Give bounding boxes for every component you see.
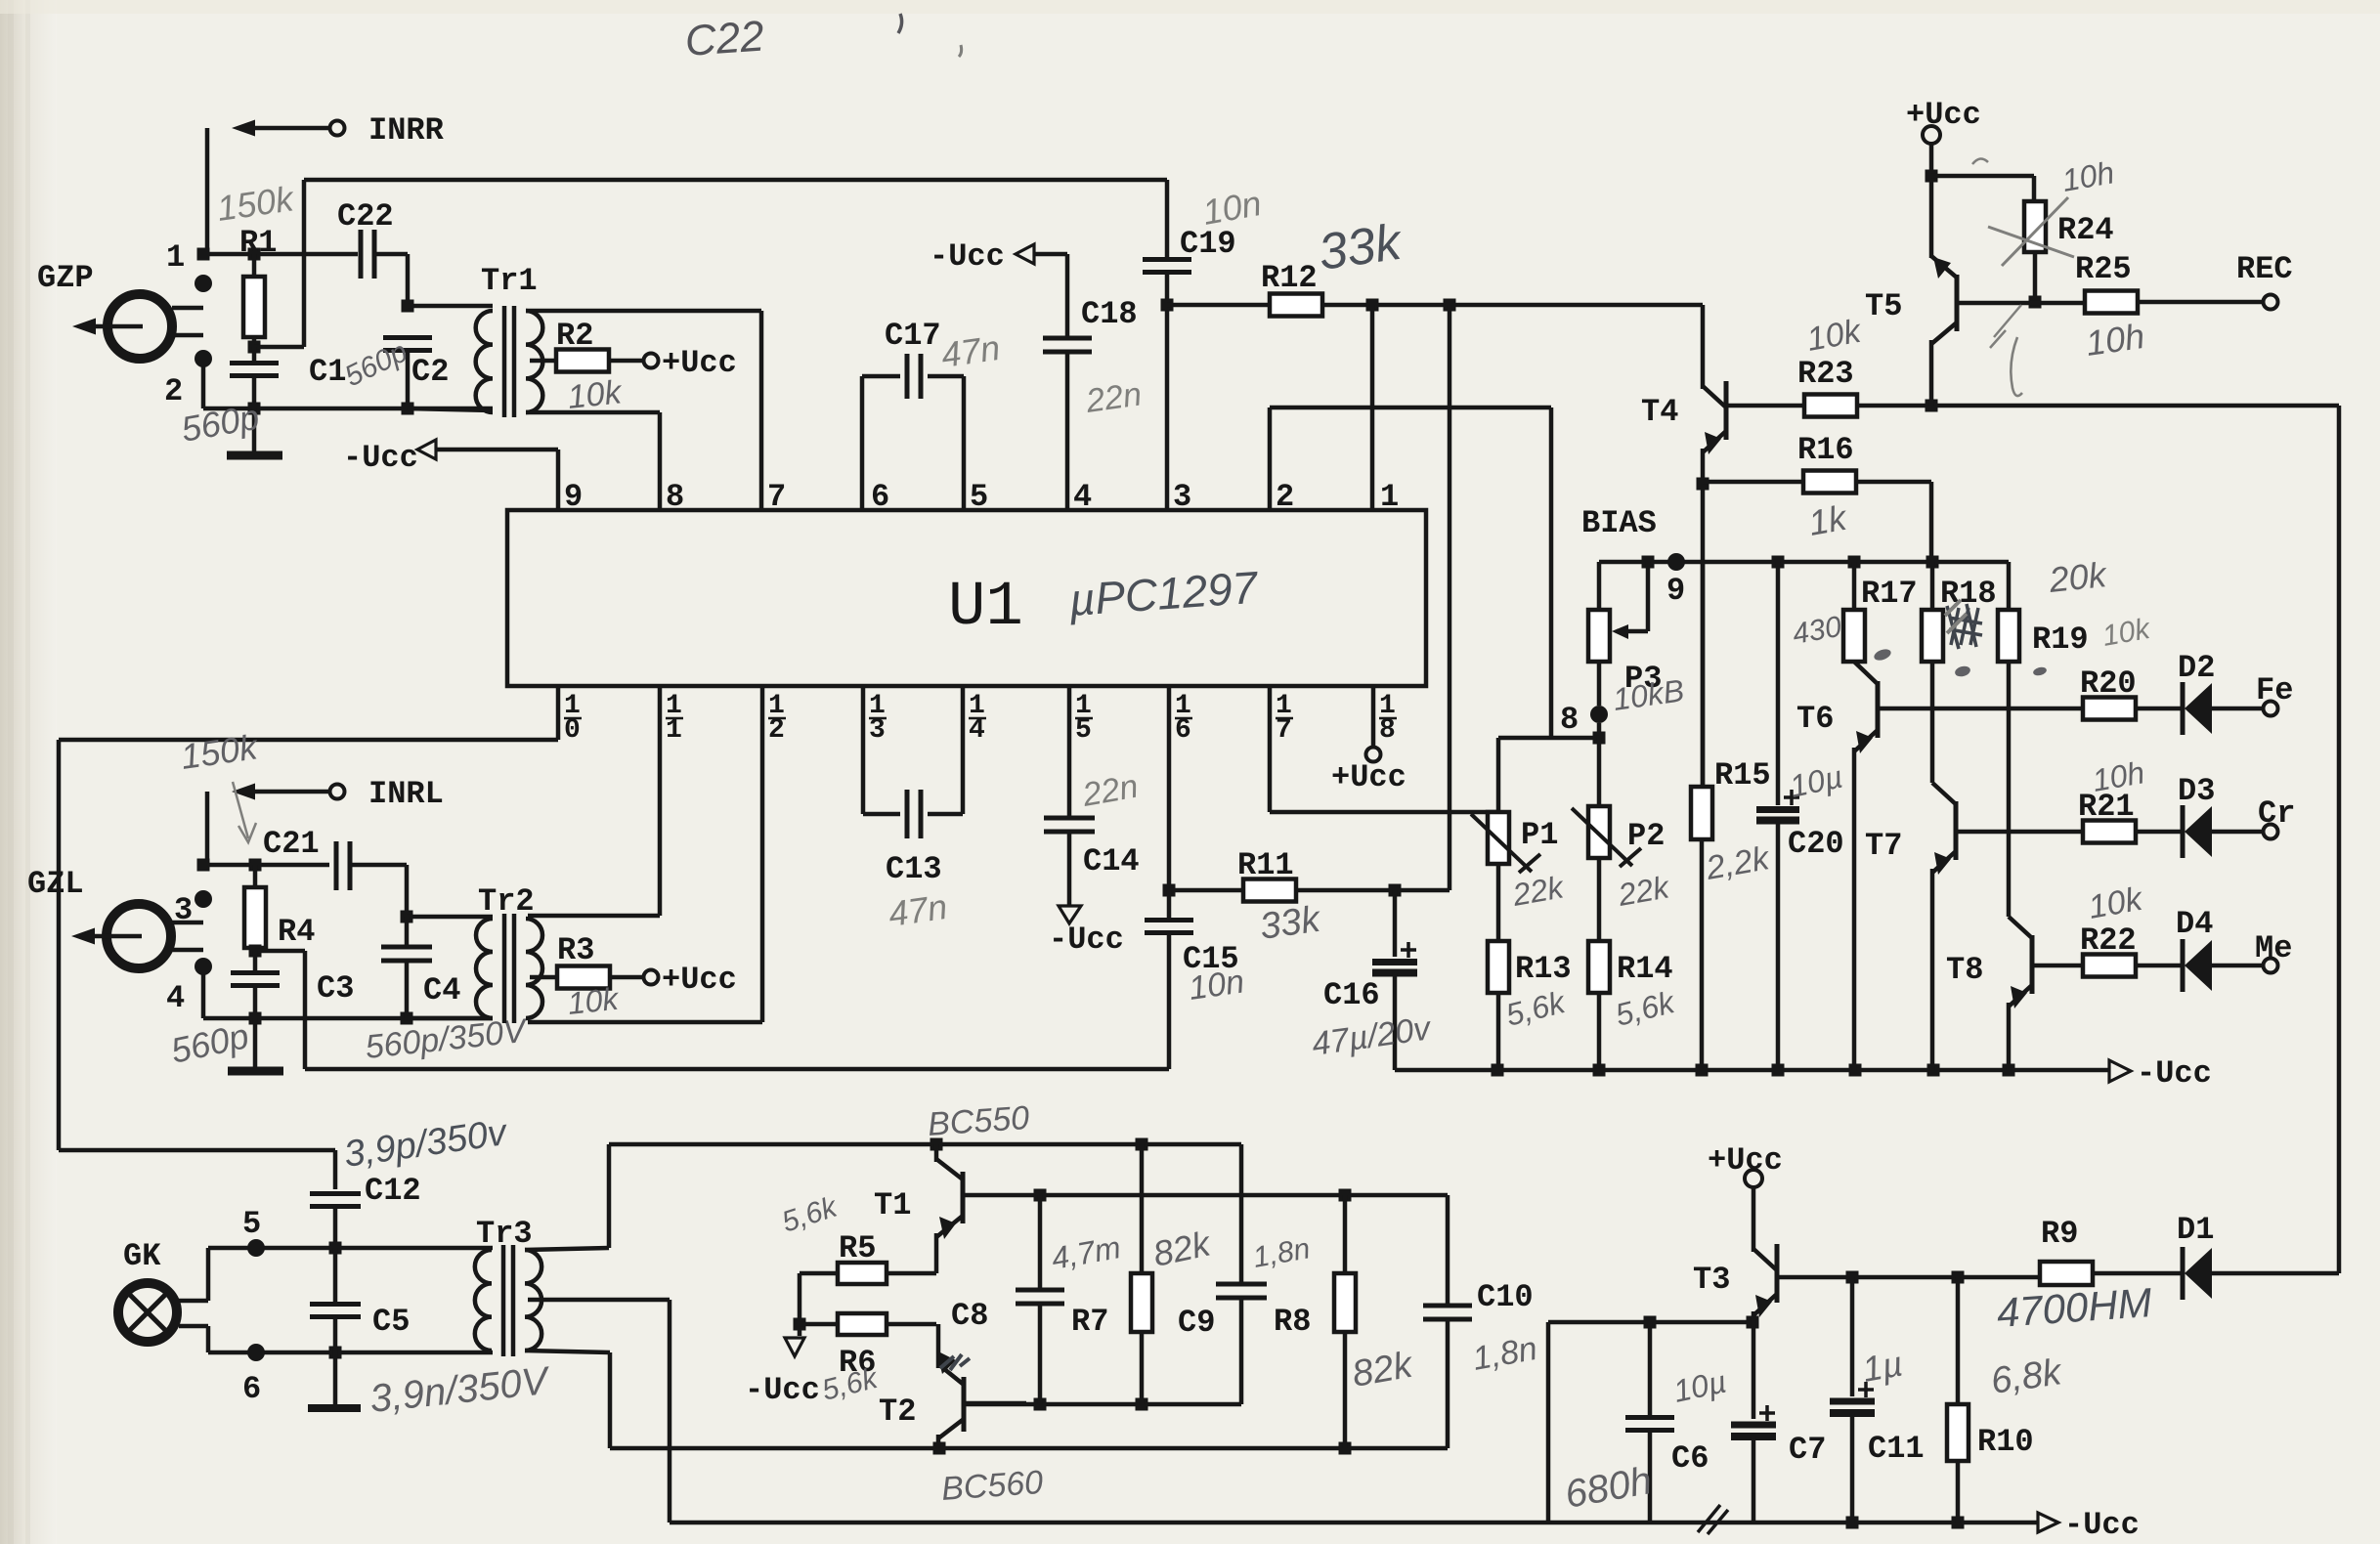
- svg-text:4: 4: [1073, 479, 1092, 515]
- svg-text:33k: 33k: [1316, 213, 1407, 281]
- svg-text:C14: C14: [1083, 843, 1140, 879]
- svg-text:10h: 10h: [2083, 316, 2146, 364]
- svg-text:T3: T3: [1693, 1262, 1730, 1298]
- svg-text:C11: C11: [1868, 1431, 1925, 1467]
- svg-text:R20: R20: [2080, 665, 2137, 702]
- svg-text:C9: C9: [1178, 1305, 1215, 1341]
- svg-text:D1: D1: [2177, 1212, 2214, 1248]
- svg-text:C18: C18: [1081, 296, 1138, 332]
- svg-text:T1: T1: [874, 1187, 911, 1223]
- svg-text:8: 8: [1379, 715, 1396, 746]
- svg-text:C13: C13: [886, 851, 942, 887]
- svg-text:7: 7: [767, 479, 786, 515]
- svg-text:C1: C1: [309, 354, 346, 390]
- svg-text:C21: C21: [263, 826, 320, 862]
- svg-text:BC550: BC550: [927, 1099, 1030, 1143]
- svg-text:BIAS: BIAS: [1581, 505, 1657, 541]
- svg-text:T8: T8: [1946, 952, 1983, 988]
- svg-text:R24: R24: [2057, 212, 2114, 248]
- svg-text:C4: C4: [423, 972, 460, 1008]
- svg-text:-Ucc: -Ucc: [930, 238, 1005, 275]
- svg-text:-Ucc: -Ucc: [2137, 1055, 2212, 1092]
- svg-text:R17: R17: [1861, 576, 1918, 612]
- svg-text:+Ucc: +Ucc: [1331, 759, 1406, 795]
- svg-text:C22: C22: [683, 12, 765, 65]
- svg-text:1: 1: [166, 239, 185, 276]
- svg-text:1: 1: [666, 715, 682, 746]
- svg-text:REC: REC: [2236, 251, 2293, 287]
- svg-text:6: 6: [1175, 715, 1191, 746]
- svg-text:+Ucc: +Ucc: [1708, 1142, 1783, 1179]
- svg-text:R10: R10: [1977, 1424, 2034, 1460]
- svg-text:T4: T4: [1641, 394, 1678, 430]
- svg-text:T5: T5: [1865, 288, 1902, 324]
- svg-text:C16: C16: [1323, 977, 1380, 1013]
- svg-text:C3: C3: [317, 970, 354, 1007]
- svg-text:47n: 47n: [886, 886, 949, 934]
- svg-text:4: 4: [166, 980, 185, 1016]
- svg-text:GK: GK: [123, 1238, 161, 1274]
- svg-text:P1: P1: [1521, 817, 1558, 853]
- svg-text:D2: D2: [2178, 650, 2215, 686]
- svg-text:R7: R7: [1071, 1304, 1108, 1340]
- svg-text:2: 2: [1276, 479, 1294, 515]
- svg-text:6: 6: [242, 1371, 261, 1407]
- svg-text:INRL: INRL: [368, 776, 444, 812]
- svg-text:9: 9: [1666, 573, 1685, 609]
- svg-text:+Ucc: +Ucc: [1906, 97, 1981, 133]
- svg-text:Me: Me: [2255, 930, 2292, 966]
- svg-text:R9: R9: [2041, 1216, 2078, 1252]
- svg-text:4: 4: [969, 715, 985, 746]
- svg-text:R8: R8: [1274, 1304, 1311, 1340]
- svg-text:GZP: GZP: [37, 260, 94, 296]
- svg-text:P2: P2: [1627, 818, 1665, 854]
- svg-text:T7: T7: [1865, 828, 1902, 864]
- svg-text:R11: R11: [1237, 847, 1294, 883]
- svg-text:8: 8: [1560, 702, 1579, 738]
- svg-text:R25: R25: [2075, 251, 2132, 287]
- svg-text:C8: C8: [951, 1298, 988, 1334]
- svg-text:22n: 22n: [1083, 375, 1144, 420]
- svg-text:+Ucc: +Ucc: [662, 345, 737, 381]
- svg-text:2: 2: [768, 715, 785, 746]
- svg-text:0: 0: [564, 715, 581, 746]
- svg-text:R14: R14: [1617, 951, 1673, 987]
- svg-text:1µ: 1µ: [1859, 1343, 1905, 1389]
- svg-text:47n: 47n: [938, 327, 1002, 375]
- svg-text:C20: C20: [1788, 826, 1844, 862]
- svg-text:20k: 20k: [2047, 554, 2110, 600]
- svg-text:R5: R5: [839, 1230, 876, 1266]
- svg-text:R2: R2: [556, 318, 593, 354]
- svg-text:T2: T2: [879, 1394, 916, 1430]
- svg-text:2: 2: [164, 373, 183, 409]
- svg-text:-Ucc: -Ucc: [343, 440, 418, 476]
- svg-text:Fe: Fe: [2256, 672, 2293, 708]
- svg-text:T6: T6: [1796, 701, 1834, 737]
- svg-text:R4: R4: [278, 914, 315, 950]
- svg-text:-Ucc: -Ucc: [745, 1372, 820, 1408]
- svg-text:C10: C10: [1477, 1279, 1534, 1315]
- svg-text:33k: 33k: [1257, 899, 1323, 948]
- svg-text:U1: U1: [948, 573, 1023, 643]
- svg-text:R19: R19: [2032, 622, 2089, 658]
- svg-text:6: 6: [871, 479, 889, 515]
- svg-text:C2: C2: [411, 354, 449, 390]
- svg-text:C22: C22: [337, 198, 394, 235]
- svg-text:C12: C12: [365, 1173, 421, 1209]
- svg-text:R1: R1: [239, 225, 277, 261]
- svg-text:C17: C17: [885, 318, 941, 354]
- svg-text:3: 3: [1173, 479, 1191, 515]
- svg-text:R23: R23: [1797, 356, 1854, 392]
- svg-text:-Ucc: -Ucc: [2064, 1507, 2140, 1543]
- svg-text:R16: R16: [1797, 432, 1854, 468]
- svg-text:C6: C6: [1671, 1440, 1709, 1477]
- svg-text:10k: 10k: [566, 981, 622, 1021]
- svg-text:R15: R15: [1714, 757, 1771, 793]
- svg-text:9: 9: [564, 479, 583, 515]
- svg-text:10k: 10k: [566, 373, 625, 416]
- svg-text:5: 5: [1075, 715, 1092, 746]
- svg-text:Cr: Cr: [2258, 795, 2295, 832]
- svg-text:C7: C7: [1789, 1432, 1826, 1468]
- svg-text:GZL: GZL: [27, 866, 84, 902]
- svg-text:Tr1: Tr1: [481, 263, 538, 299]
- svg-text:+Ucc: +Ucc: [662, 962, 737, 998]
- svg-text:C5: C5: [372, 1304, 410, 1340]
- svg-text:D4: D4: [2176, 906, 2213, 942]
- svg-text:-Ucc: -Ucc: [1049, 922, 1124, 958]
- svg-text:5: 5: [242, 1206, 261, 1242]
- svg-text:10n: 10n: [1187, 963, 1246, 1008]
- svg-text:R13: R13: [1515, 951, 1572, 987]
- svg-text:R3: R3: [557, 932, 594, 968]
- svg-text:R22: R22: [2080, 922, 2137, 959]
- svg-text:1: 1: [1380, 479, 1399, 515]
- svg-text:7: 7: [1276, 715, 1292, 746]
- svg-text:5: 5: [970, 479, 988, 515]
- svg-text:R12: R12: [1261, 260, 1318, 296]
- svg-text:BC560: BC560: [940, 1464, 1044, 1508]
- svg-text:INRR: INRR: [368, 112, 445, 149]
- svg-text:D3: D3: [2178, 773, 2215, 809]
- svg-text:3: 3: [174, 892, 193, 928]
- svg-text:8: 8: [666, 479, 684, 515]
- svg-text:3: 3: [869, 715, 886, 746]
